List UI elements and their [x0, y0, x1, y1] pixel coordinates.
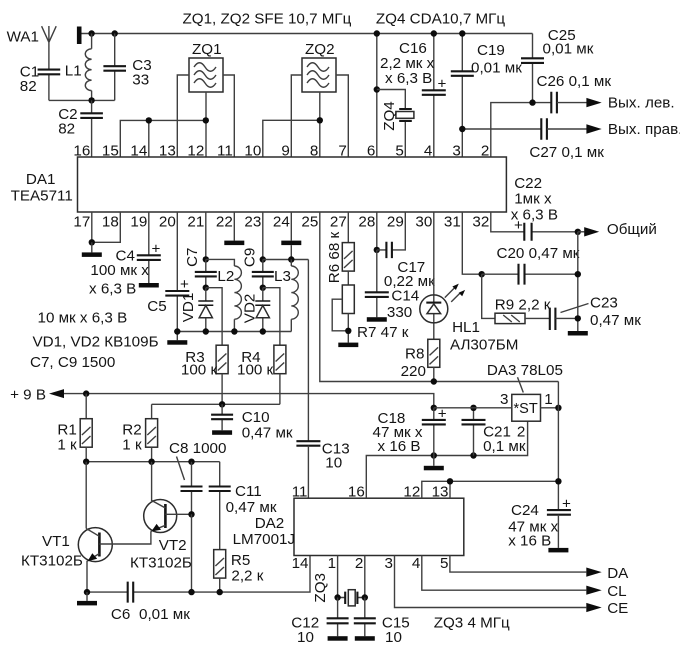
- IC DA2 LM7001J body: [233, 498, 464, 555]
- svg-text:C6: C6: [111, 606, 130, 623]
- node top rail pin 3: [459, 30, 465, 36]
- svg-text:0,47 мк: 0,47 мк: [226, 499, 277, 516]
- svg-text:R6 68 к: R6 68 к: [326, 231, 343, 283]
- wire pin 21: [205, 212, 207, 259]
- wire varactor common line: [177, 331, 291, 333]
- svg-text:R9 2,2 к: R9 2,2 к: [495, 297, 551, 314]
- capacitor C25: [521, 27, 594, 103]
- capacitor C20: [482, 245, 580, 285]
- svg-text:10: 10: [385, 629, 402, 646]
- inductor L2: [206, 259, 242, 331]
- resistor R1: [57, 394, 92, 462]
- svg-text:+: +: [180, 276, 189, 293]
- svg-text:х 16 В: х 16 В: [378, 438, 421, 455]
- svg-text:1: 1: [328, 555, 336, 572]
- svg-text:12: 12: [403, 484, 420, 501]
- pin numbers DA2 top: [292, 484, 449, 501]
- wire DA2 pin 3 CE: [395, 556, 587, 608]
- svg-text:HL1: HL1: [452, 319, 480, 336]
- node pin 21: [203, 256, 209, 262]
- varactor VD1: [180, 288, 213, 332]
- svg-text:2: 2: [517, 424, 525, 441]
- node VT2 base C8: [188, 511, 194, 517]
- ground C14: [367, 317, 387, 322]
- svg-text:L1: L1: [65, 63, 82, 80]
- svg-text:х 6,3 В: х 6,3 В: [385, 70, 432, 87]
- wire pin 31: [462, 212, 481, 274]
- pin numbers DA1 top: [73, 143, 489, 160]
- svg-text:х 6,3 В: х 6,3 В: [511, 207, 558, 224]
- svg-text:ZQ4 CDA10,7 МГц: ZQ4 CDA10,7 МГц: [376, 11, 505, 28]
- capacitor C3: [103, 34, 151, 101]
- pin numbers DA2 bottom: [292, 555, 449, 572]
- svg-text:23: 23: [244, 214, 261, 231]
- svg-text:ZQ2: ZQ2: [305, 41, 335, 58]
- varactor VD2: [241, 288, 270, 332]
- wire DA2 pin 4 CL: [422, 556, 587, 591]
- resistor R9: [495, 297, 551, 324]
- svg-text:13: 13: [159, 143, 176, 160]
- svg-text:4: 4: [424, 143, 432, 160]
- svg-text:330: 330: [387, 304, 412, 321]
- wire DA2 pin 13: [449, 481, 451, 498]
- svg-text:C26 0,1 мк: C26 0,1 мк: [537, 73, 612, 90]
- capacitor C6: [111, 582, 190, 623]
- svg-text:DA2: DA2: [255, 515, 285, 532]
- svg-text:82: 82: [58, 121, 75, 138]
- svg-text:C20 0,47 мк: C20 0,47 мк: [497, 245, 580, 262]
- wire pin23 to L3 top: [263, 259, 309, 261]
- arrow +9V: [49, 389, 64, 398]
- inductor L3: [274, 260, 298, 332]
- svg-text:CE: CE: [607, 600, 628, 617]
- node line VD2: [260, 328, 266, 334]
- svg-text:2: 2: [481, 143, 489, 160]
- inductor L1: [65, 34, 92, 101]
- wire pin 3 node to right output: [462, 128, 541, 130]
- LED HL1: [420, 212, 519, 354]
- wire ZQ2 left to pin 9: [291, 75, 302, 157]
- svg-text:10 мк х 6,3 В: 10 мк х 6,3 В: [38, 310, 128, 327]
- ground pin 24: [281, 212, 301, 260]
- svg-text:22: 22: [216, 214, 233, 231]
- svg-text:DA1: DA1: [26, 171, 56, 188]
- svg-text:82: 82: [20, 78, 37, 95]
- node VD2 top: [260, 285, 266, 291]
- svg-text:ZQ1: ZQ1: [192, 41, 222, 58]
- node common: [575, 229, 581, 235]
- svg-text:7: 7: [338, 143, 346, 160]
- node R1 top: [83, 390, 89, 396]
- svg-text:5: 5: [440, 555, 448, 572]
- node pin 23: [260, 256, 266, 262]
- wire ZQ1 left to pin 13: [177, 75, 189, 157]
- node VT2 collector: [148, 459, 154, 465]
- svg-text:C19: C19: [477, 42, 505, 59]
- svg-text:C27 0,1 мк: C27 0,1 мк: [529, 144, 604, 161]
- capacitor C27: [529, 118, 604, 161]
- svg-text:18: 18: [102, 214, 119, 231]
- ground C10: [212, 430, 232, 435]
- svg-text:15: 15: [102, 143, 119, 160]
- node top rail pin 6: [374, 30, 380, 36]
- svg-text:C7: C7: [184, 247, 201, 266]
- svg-text:10: 10: [297, 629, 314, 646]
- svg-text:11: 11: [217, 143, 233, 160]
- capacitor C5: [38, 212, 190, 332]
- svg-text:C10: C10: [242, 409, 270, 426]
- svg-text:28: 28: [358, 214, 375, 231]
- resistor R4: [237, 345, 286, 404]
- capacitor C16: [380, 34, 447, 158]
- wire R9 feed: [482, 274, 495, 318]
- node pin 14: [146, 117, 152, 123]
- svg-text:100 мк х: 100 мк х: [90, 262, 149, 279]
- crystal ZQ4: [377, 90, 414, 158]
- svg-text:C23: C23: [590, 295, 618, 312]
- capacitor C19: [451, 34, 522, 158]
- node C21 bottom: [470, 452, 476, 458]
- svg-text:L3: L3: [274, 268, 291, 285]
- ground C15: [355, 636, 375, 641]
- svg-text:L2: L2: [217, 268, 234, 285]
- capacitor C7: [184, 247, 217, 287]
- svg-text:10: 10: [244, 143, 261, 160]
- svg-text:6: 6: [367, 143, 375, 160]
- wire ZQ2 bottom to pin 8: [319, 92, 321, 157]
- svg-text:100 к: 100 к: [237, 362, 274, 379]
- IC DA1 TEA5711 body: [11, 157, 507, 212]
- arrow common: [584, 227, 599, 236]
- svg-text:1 к: 1 к: [122, 437, 142, 454]
- svg-text:24: 24: [273, 214, 290, 231]
- svg-text:Общий: Общий: [607, 221, 657, 238]
- wire C8 bottom drop: [191, 514, 193, 592]
- wire R4 feed: [263, 288, 280, 346]
- svg-text:ZQ4: ZQ4: [381, 101, 398, 131]
- svg-text:КТ3102Б: КТ3102Б: [130, 555, 192, 572]
- svg-text:VD2: VD2: [241, 294, 258, 324]
- wire collector rail: [86, 461, 220, 463]
- wire pin 18: [92, 212, 121, 242]
- node pin 13: [447, 478, 453, 484]
- svg-text:3: 3: [500, 391, 508, 408]
- capacitor C22: [491, 175, 578, 241]
- svg-text:12: 12: [187, 143, 204, 160]
- wire pin 10 to ZQ2 bottom: [263, 120, 320, 157]
- svg-text:9: 9: [281, 143, 289, 160]
- capacitor C10: [211, 404, 293, 441]
- node top rail pin 4: [431, 30, 437, 36]
- svg-text:27: 27: [330, 214, 347, 231]
- filter ZQ1: [189, 41, 223, 92]
- svg-text:2: 2: [355, 555, 363, 572]
- svg-text:*ST: *ST: [514, 401, 538, 417]
- wire pin 28: [376, 212, 378, 250]
- ground C4: [139, 283, 159, 288]
- wire +9V rail: [64, 394, 434, 408]
- crystal ZQ3: [312, 556, 365, 606]
- node emitter ground: [84, 589, 90, 595]
- svg-text:3: 3: [385, 555, 393, 572]
- ground pin 22: [224, 212, 244, 245]
- svg-text:8: 8: [310, 143, 318, 160]
- node pin 28: [374, 247, 380, 253]
- svg-text:ZQ3: ZQ3: [312, 573, 329, 603]
- resistor R6: [326, 212, 354, 283]
- arrow output left: [586, 98, 601, 107]
- svg-text:C24: C24: [511, 502, 539, 519]
- svg-text:0,01 мк: 0,01 мк: [471, 60, 522, 77]
- svg-text:0,1 мк: 0,1 мк: [483, 438, 526, 455]
- node DA3 output: [555, 405, 561, 411]
- ground C24: [548, 548, 568, 553]
- svg-text:4: 4: [412, 555, 420, 572]
- capacitor C8: [169, 440, 226, 514]
- resistor R7 trimmer: [332, 271, 409, 343]
- ground DA2 rail: [424, 456, 444, 471]
- resistor R5: [214, 550, 264, 593]
- svg-text:+: +: [152, 241, 161, 258]
- svg-text:32: 32: [472, 214, 489, 231]
- svg-text:LM7001J: LM7001J: [233, 531, 295, 548]
- svg-text:10: 10: [325, 455, 342, 472]
- node R5 rail: [217, 589, 223, 595]
- wire ZQ2 right to pin 7: [336, 75, 348, 157]
- svg-text:VT2: VT2: [159, 537, 187, 554]
- capacitor C17: [377, 212, 435, 290]
- svg-text:WA1: WA1: [7, 29, 39, 46]
- node pin 3 output right: [459, 126, 465, 132]
- svg-text:+: +: [562, 496, 571, 513]
- svg-text:5: 5: [395, 143, 403, 160]
- wire ZQ1 right to pin 11: [223, 75, 234, 157]
- svg-text:16: 16: [348, 484, 365, 501]
- capacitor C21: [462, 408, 526, 456]
- wire common vertical: [577, 232, 579, 331]
- svg-text:0,47 мк: 0,47 мк: [242, 425, 293, 442]
- node VT1 collector: [83, 459, 89, 465]
- svg-text:C5: C5: [147, 298, 166, 315]
- svg-text:Вых. лев.: Вых. лев.: [608, 95, 675, 112]
- node DA3 input: [431, 405, 437, 411]
- node C3 top: [112, 30, 118, 36]
- svg-text:CL: CL: [607, 583, 626, 600]
- capacitor C11: [209, 462, 277, 550]
- svg-text:VT1: VT1: [42, 533, 70, 550]
- svg-text:30: 30: [415, 214, 432, 231]
- svg-text:DA: DA: [607, 565, 629, 582]
- svg-text:14: 14: [130, 143, 147, 160]
- ground pin 17: [82, 242, 102, 257]
- wire ZQ1 bottom to pin 12: [205, 92, 207, 157]
- svg-text:14: 14: [292, 555, 309, 572]
- svg-text:29: 29: [387, 214, 404, 231]
- svg-text:220: 220: [401, 363, 426, 380]
- antenna input terminal bar: [77, 27, 82, 45]
- node C23 right: [575, 315, 581, 321]
- transistor VT1: [21, 462, 151, 592]
- capacitor C15: [354, 598, 410, 647]
- svg-text:VD1, VD2 КВ109Б: VD1, VD2 КВ109Б: [33, 334, 159, 351]
- svg-text:R7 47 к: R7 47 к: [357, 324, 409, 341]
- svg-text:R8: R8: [405, 346, 424, 363]
- wire tank bottom: [49, 99, 115, 101]
- node C18 bottom: [431, 452, 437, 458]
- node line C5: [174, 328, 180, 334]
- svg-text:АЛ307БМ: АЛ307БМ: [450, 337, 518, 354]
- node R8 bottom rail: [431, 378, 437, 384]
- node pin 12 ZQ1: [203, 117, 209, 123]
- svg-text:11: 11: [292, 484, 308, 501]
- svg-text:25: 25: [301, 214, 318, 231]
- node L3 top: [288, 256, 294, 262]
- regulator DA3 78L05: [434, 362, 563, 441]
- svg-text:TEA5711: TEA5711: [11, 188, 73, 205]
- resistor R2: [122, 404, 157, 461]
- svg-text:+ 9 В: + 9 В: [10, 387, 46, 404]
- svg-text:C8 1000: C8 1000: [169, 440, 226, 457]
- wire pin 17: [91, 212, 93, 242]
- wire L3 node to C13: [307, 260, 309, 442]
- antenna WA1: [7, 26, 57, 69]
- pin numbers DA1 bottom: [73, 214, 489, 231]
- svg-text:1: 1: [544, 391, 552, 408]
- node C20 right: [575, 271, 581, 277]
- node ZQ3 right: [362, 594, 368, 600]
- arrow DA: [586, 568, 601, 577]
- wire common: [578, 231, 585, 233]
- capacitor C18: [373, 406, 447, 456]
- svg-text:21: 21: [187, 214, 204, 231]
- wire R2 R3 R4 rail: [152, 403, 280, 405]
- svg-text:1 к: 1 к: [57, 437, 77, 454]
- capacitor C13: [296, 441, 349, 499]
- svg-text:ZQ3 4 МГц: ZQ3 4 МГц: [434, 615, 510, 632]
- svg-text:33: 33: [132, 72, 149, 89]
- arrow CL: [586, 586, 601, 595]
- wire pins 15-14-12: [120, 120, 206, 157]
- wire pin 14: [148, 120, 150, 157]
- node pins 17-18: [89, 239, 95, 245]
- svg-text:DA3 78L05: DA3 78L05: [487, 362, 563, 379]
- ground common: [568, 331, 588, 336]
- svg-text:+: +: [438, 76, 447, 93]
- svg-text:КТ3102Б: КТ3102Б: [21, 553, 83, 570]
- node C20 left: [479, 271, 485, 277]
- svg-text:17: 17: [73, 214, 90, 231]
- svg-text:13: 13: [432, 484, 449, 501]
- svg-text:3: 3: [452, 143, 460, 160]
- svg-text:R5: R5: [231, 552, 250, 569]
- node C8 rail: [188, 589, 194, 595]
- node C10 top: [219, 401, 225, 407]
- capacitor C9: [241, 248, 273, 288]
- wire pin 2 riser to left output: [491, 103, 551, 157]
- arrow CE: [586, 603, 601, 612]
- wire emitter ground rail: [87, 556, 310, 593]
- svg-text:C11: C11: [235, 483, 262, 500]
- capacitor C1: [20, 64, 60, 101]
- svg-text:C14: C14: [391, 288, 419, 305]
- node C21 top: [470, 405, 476, 411]
- wire DA2 pin 5 DA: [450, 556, 586, 573]
- node tank bottom: [88, 97, 94, 103]
- node C24 top: [555, 478, 561, 484]
- capacitor C24: [508, 496, 571, 550]
- resistor R3: [181, 345, 228, 404]
- node line L2: [231, 328, 237, 334]
- node C8 top: [188, 459, 194, 465]
- svg-text:1мк х: 1мк х: [514, 191, 552, 208]
- node R7 bottom: [345, 328, 351, 334]
- svg-text:0,01 мк: 0,01 мк: [139, 606, 190, 623]
- node ZQ4 branch: [374, 86, 380, 92]
- ground C12: [328, 636, 348, 641]
- svg-text:20: 20: [159, 214, 176, 231]
- svg-text:х 16 В: х 16 В: [508, 533, 551, 550]
- wire DA2 pins 12 13 rail: [422, 481, 559, 498]
- svg-text:C9: C9: [241, 248, 258, 267]
- resistor R8: [401, 339, 440, 381]
- svg-text:ZQ1, ZQ2 SFE 10,7 МГц: ZQ1, ZQ2 SFE 10,7 МГц: [183, 11, 352, 28]
- wire pin 6 riser: [376, 34, 378, 158]
- capacitor C23: [550, 295, 641, 331]
- arrow output right: [586, 124, 601, 133]
- wire pin 23: [262, 212, 264, 260]
- svg-text:0,47 мк: 0,47 мк: [590, 312, 641, 329]
- node C25 output left: [529, 99, 535, 105]
- capacitor C2: [58, 100, 103, 157]
- svg-text:0,01 мк: 0,01 мк: [543, 41, 594, 58]
- svg-text:Вых. прав.: Вых. прав.: [608, 121, 680, 138]
- node L1 top: [88, 30, 94, 36]
- svg-text:100 к: 100 к: [181, 362, 218, 379]
- svg-text:х 6,3 В: х 6,3 В: [89, 281, 136, 298]
- svg-text:VD1: VD1: [180, 293, 197, 323]
- node line VD1: [203, 328, 209, 334]
- ground R7: [338, 343, 358, 348]
- node ZQ3 left: [334, 594, 340, 600]
- capacitor C14: [365, 250, 419, 321]
- svg-text:C7, C9 1500: C7, C9 1500: [30, 354, 115, 371]
- filter ZQ2: [302, 41, 336, 92]
- node pin 8 ZQ2: [317, 117, 323, 123]
- svg-text:19: 19: [130, 214, 147, 231]
- ground VT1 emitter: [77, 592, 97, 605]
- svg-text:31: 31: [444, 214, 461, 231]
- wire pin 25 long riser: [320, 212, 559, 382]
- svg-text:16: 16: [73, 143, 90, 160]
- wire R3 feed: [206, 288, 222, 346]
- wire top rail: [82, 33, 533, 35]
- transistor VT2: [130, 462, 192, 572]
- capacitor C26: [537, 73, 612, 113]
- capacitor C12: [291, 598, 348, 647]
- capacitor C4: [89, 212, 161, 298]
- wire DA2 pin 16 ground rail: [366, 421, 527, 498]
- wire DA3 output vertical: [557, 382, 559, 511]
- node VD1 top: [203, 285, 209, 291]
- svg-text:C22: C22: [514, 175, 542, 192]
- svg-text:2,2 к: 2,2 к: [231, 568, 263, 585]
- ground C5: [167, 332, 187, 345]
